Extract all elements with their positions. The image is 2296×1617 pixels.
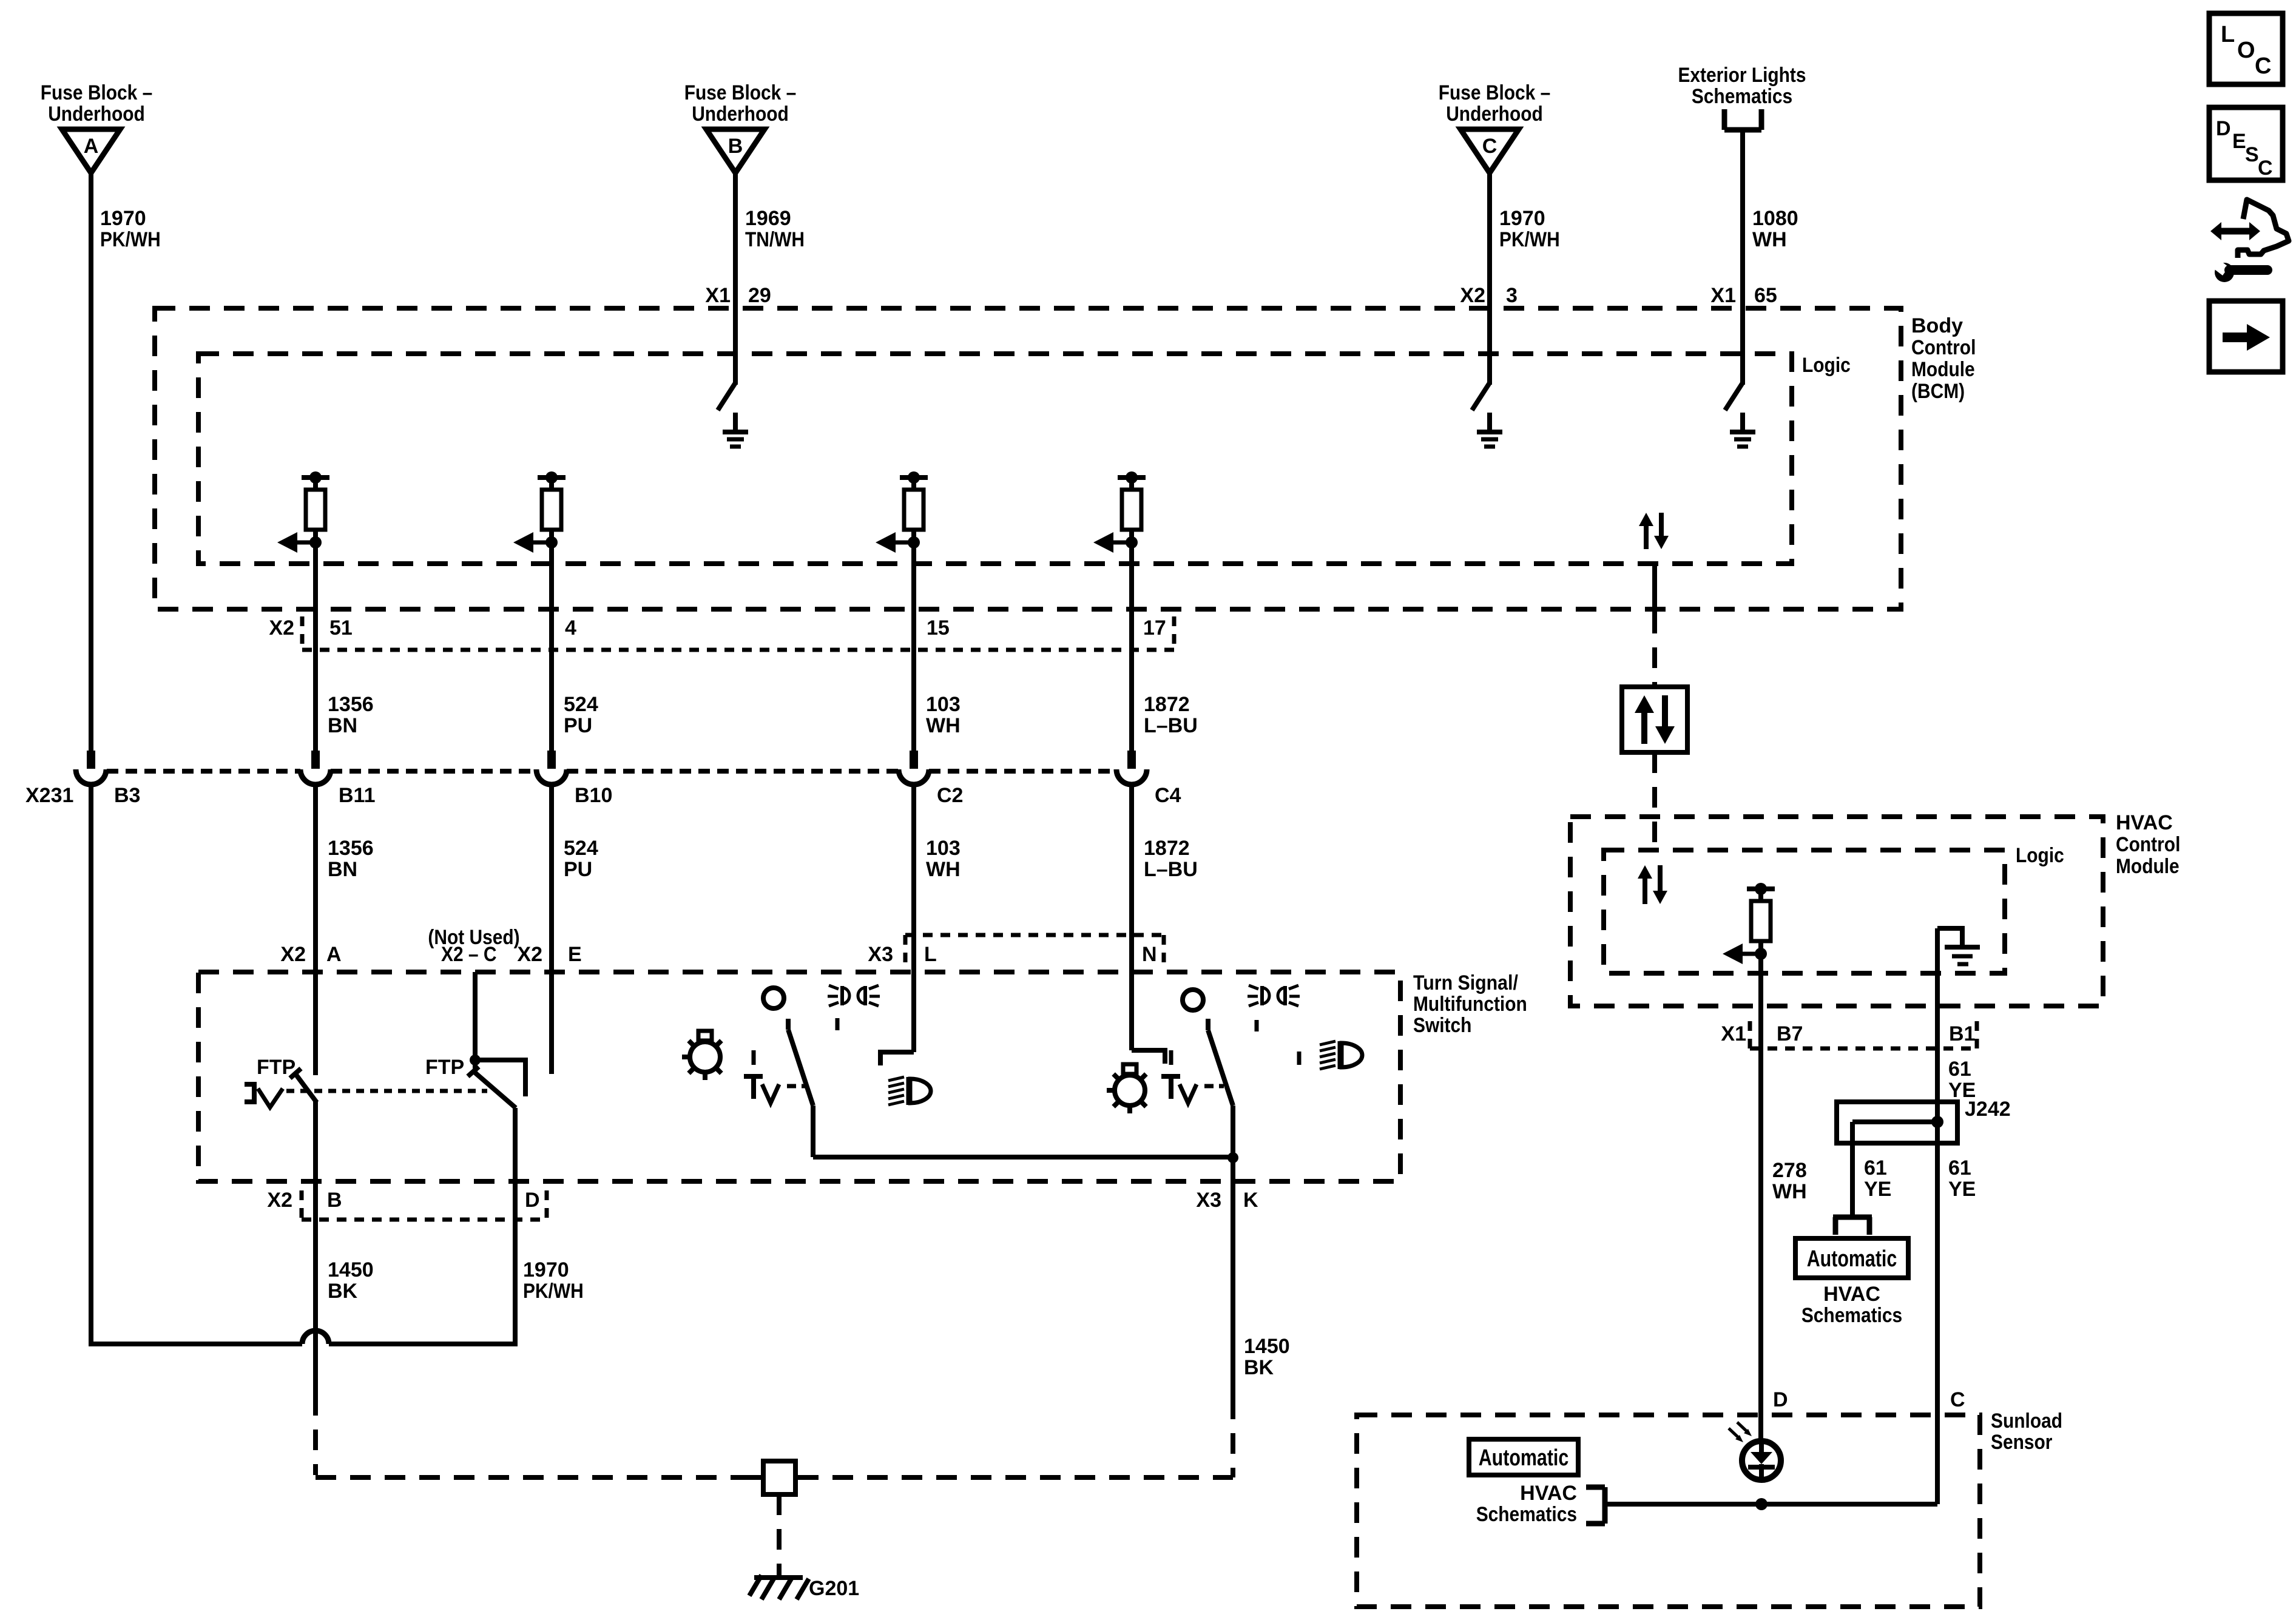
svg-text:1969: 1969 — [745, 207, 791, 230]
X231 label — [25, 784, 73, 807]
svg-text:Turn Signal/: Turn Signal/ — [1413, 971, 1518, 994]
fuse block C label — [1439, 81, 1551, 126]
label 1872 L-BU upper — [1144, 693, 1198, 737]
svg-text:PK/WH: PK/WH — [523, 1280, 584, 1303]
label 1450 BK left — [328, 1258, 374, 1303]
tick below flash icon 1 — [836, 1018, 840, 1030]
Turn Signal/Multifunction Switch dashed box — [198, 972, 1400, 1181]
svg-text:1970: 1970 — [1499, 207, 1545, 230]
FTP switch blade left — [290, 1068, 317, 1102]
svg-text:X2: X2 — [269, 616, 294, 640]
svg-text:Multifunction: Multifunction — [1413, 993, 1527, 1016]
fuse block triangle C — [1460, 129, 1519, 173]
BCM driver resistor for B11 — [277, 471, 329, 553]
fuse block triangle A — [62, 129, 120, 173]
svg-text:Module: Module — [1911, 358, 1975, 381]
switch output wire to K — [813, 1155, 1233, 1160]
svg-text:X1: X1 — [1710, 284, 1736, 307]
Body Control Module (BCM) outer dashed box — [155, 308, 1901, 609]
HVAC Logic label — [2016, 844, 2064, 867]
svg-text:X1: X1 — [705, 284, 731, 307]
wire 1080 WH from exterior lights — [1740, 130, 1745, 385]
svg-text:L–BU: L–BU — [1144, 714, 1198, 737]
svg-text:1872: 1872 — [1144, 837, 1190, 860]
label 103 WH lower — [926, 837, 961, 881]
svg-text:FTP: FTP — [425, 1056, 464, 1079]
svg-text:B11: B11 — [339, 784, 376, 807]
svg-text:Schematics: Schematics — [1476, 1503, 1577, 1526]
wire C circuit label 1970 PK/WH — [1499, 207, 1560, 251]
svg-text:E: E — [2232, 130, 2246, 153]
wire 1970 PK/WH to switch (A) — [89, 786, 93, 1346]
wire 1970 PK/WH from fuse A — [89, 173, 93, 753]
wire 1356 BN upper — [313, 542, 318, 753]
HVAC Schematics label 2 — [1476, 1482, 1577, 1526]
svg-text:B1: B1 — [1949, 1022, 1975, 1045]
svg-text:1970: 1970 — [100, 207, 146, 230]
HVAC Schematics label 1 — [1801, 1283, 1902, 1327]
svg-text:Schematics: Schematics — [1801, 1304, 1902, 1327]
svg-text:WH: WH — [926, 714, 961, 737]
FTP label right — [425, 1056, 464, 1079]
svg-text:Body: Body — [1911, 314, 1963, 337]
tick left of headlamp icon 2 — [1297, 1052, 1302, 1065]
detent symbol 1 — [744, 1050, 806, 1103]
wire 1450 BK from X3-K — [1231, 1158, 1235, 1399]
svg-text:B: B — [728, 135, 743, 158]
wire 1450 BK from X2-B — [313, 1101, 318, 1395]
Sunload Sensor dashed box — [1357, 1415, 1980, 1607]
pin label 4 — [565, 616, 576, 640]
svg-text:A: A — [84, 135, 99, 158]
svg-text:1356: 1356 — [328, 837, 374, 860]
HVAC internal ground for B1 — [1937, 928, 1980, 964]
BCM driver resistor for C2 — [876, 471, 928, 553]
svg-text:G201: G201 — [809, 1577, 859, 1600]
pin label X1 B7 — [1721, 1022, 1803, 1045]
svg-text:B7: B7 — [1777, 1022, 1803, 1045]
svg-text:C4: C4 — [1155, 784, 1181, 807]
svg-text:1872: 1872 — [1144, 693, 1190, 716]
label 1450 BK right — [1244, 1335, 1290, 1379]
svg-text:51: 51 — [329, 616, 353, 640]
pin label B3 — [114, 784, 140, 807]
wire 61 YE to HVAC schematics — [1850, 1122, 1855, 1215]
svg-text:61: 61 — [1948, 1058, 1971, 1081]
svg-text:1970: 1970 — [523, 1258, 569, 1281]
pin label D — [1773, 1388, 1788, 1411]
svg-text:HVAC: HVAC — [2116, 811, 2173, 834]
serial data box symbol — [1622, 687, 1687, 752]
switch pivot circle 1 — [763, 988, 784, 1008]
fixed contact from 1872 L-BU — [1132, 1050, 1165, 1064]
BCM internal switch to ground on 1080 wire — [1725, 383, 1755, 447]
HVAC X1 connector fine dotted line — [1750, 1021, 1977, 1048]
FTP linkage dotted line — [286, 1089, 487, 1093]
pin label C — [1950, 1388, 1965, 1411]
svg-text:Underhood: Underhood — [1446, 103, 1543, 126]
wire 61 YE (B1) — [1935, 928, 1940, 1504]
pin label X1 65 — [1710, 284, 1777, 307]
svg-text:L: L — [2221, 22, 2235, 47]
svg-text:103: 103 — [926, 693, 961, 716]
pin label 17 — [1143, 616, 1166, 640]
svg-text:X2: X2 — [1460, 284, 1485, 307]
wire 103 WH upper — [911, 542, 916, 753]
BCM name label — [1911, 314, 1976, 403]
pin label X2 51 — [269, 616, 352, 640]
svg-text:X1: X1 — [1721, 1022, 1746, 1045]
Automatic box 2 — [1469, 1439, 1578, 1475]
HVAC sensor resistor — [1723, 883, 1775, 964]
exterior lights source bracket — [1724, 109, 1761, 130]
svg-text:Switch: Switch — [1413, 1014, 1471, 1037]
svg-text:61: 61 — [1864, 1156, 1887, 1180]
pin label X2 E — [517, 943, 581, 966]
svg-text:C: C — [2255, 53, 2271, 79]
svg-text:278: 278 — [1772, 1159, 1807, 1182]
BCM Logic label — [1802, 354, 1851, 377]
svg-text:1450: 1450 — [1244, 1335, 1290, 1358]
svg-text:Logic: Logic — [1802, 354, 1851, 377]
svg-text:HVAC: HVAC — [1520, 1482, 1577, 1505]
J242 label — [1965, 1098, 2011, 1121]
svg-text:X3: X3 — [868, 943, 893, 966]
source bracket sunload — [1586, 1487, 1605, 1524]
Turn Signal switch name label — [1413, 971, 1527, 1037]
svg-text:Underhood: Underhood — [48, 103, 145, 126]
pin label X3 L — [868, 943, 936, 966]
svg-text:PU: PU — [564, 714, 592, 737]
svg-text:Module: Module — [2116, 855, 2180, 878]
fuse block A label — [41, 81, 153, 126]
not used note — [428, 926, 519, 949]
BCM internal switch to ground on 1969 wire — [718, 383, 748, 447]
FTP label left — [257, 1056, 295, 1079]
pin label B11 — [339, 784, 376, 807]
svg-text:BK: BK — [1244, 1356, 1274, 1379]
svg-text:524: 524 — [564, 693, 598, 716]
Sunload Sensor name label — [1991, 1409, 2062, 1454]
svg-text:WH: WH — [1772, 1180, 1807, 1203]
FTP detent symbol — [245, 1082, 283, 1107]
svg-text:HVAC: HVAC — [1823, 1283, 1880, 1306]
HVAC Control Module outer dashed box — [1570, 817, 2103, 1006]
svg-text:YE: YE — [1864, 1178, 1891, 1201]
pin label X3 K — [1196, 1189, 1258, 1212]
svg-text:L: L — [924, 943, 937, 966]
crossover hop on ground run — [91, 1331, 515, 1344]
connector cup B11 — [300, 751, 331, 785]
connector cup B3 — [76, 751, 106, 785]
svg-text:C: C — [1950, 1388, 1965, 1411]
svg-text:X2: X2 — [267, 1189, 292, 1212]
HVAC module name label — [2116, 811, 2180, 878]
svg-text:Underhood: Underhood — [692, 103, 789, 126]
HVAC serial data arrows — [1638, 865, 1667, 904]
connector cup C4 — [1116, 751, 1147, 785]
label 61 YE right — [1948, 1156, 1976, 1201]
gear icon 1 — [682, 1031, 721, 1080]
svg-text:(BCM): (BCM) — [1911, 380, 1965, 403]
serial data dashed wire to HVAC — [1652, 752, 1657, 848]
label 1872 L-BU lower — [1144, 837, 1198, 881]
svg-text:Logic: Logic — [2016, 844, 2064, 867]
wire 1872 L-BU lower — [1129, 786, 1134, 1050]
pin label C4 — [1155, 784, 1181, 807]
svg-text:WH: WH — [1752, 228, 1787, 251]
label 61 YE upper — [1948, 1058, 1976, 1102]
switch blade 1 — [788, 1019, 813, 1157]
label 1356 BN upper — [328, 693, 374, 737]
FTP switch blade right — [468, 1067, 516, 1108]
svg-text:C2: C2 — [937, 784, 963, 807]
svg-text:C: C — [1482, 135, 1497, 158]
svg-text:PU: PU — [564, 858, 592, 881]
svg-text:29: 29 — [748, 284, 771, 307]
pin label X2 A — [280, 943, 341, 966]
svg-text:61: 61 — [1948, 1156, 1971, 1180]
Automatic box 1 — [1795, 1238, 1908, 1278]
svg-text:X2 – C: X2 – C — [441, 943, 497, 966]
svg-text:Control: Control — [1911, 336, 1976, 359]
svg-text:1450: 1450 — [328, 1258, 374, 1281]
svg-text:C: C — [2258, 157, 2273, 180]
svg-text:Control: Control — [2116, 833, 2180, 856]
headlamp icon 1 — [888, 1077, 931, 1105]
svg-text:Sunload: Sunload — [1991, 1409, 2062, 1433]
svg-text:O: O — [2237, 38, 2255, 63]
svg-text:X231: X231 — [25, 784, 73, 807]
BCM driver resistor for C4 — [1093, 471, 1146, 553]
BCM serial data arrows — [1639, 513, 1669, 549]
svg-text:X3: X3 — [1196, 1189, 1221, 1212]
wire 103 WH lower — [911, 786, 916, 1052]
tick below flash icon 2 — [1255, 1020, 1259, 1031]
wire 278 WH — [1758, 954, 1763, 1439]
wire B circuit label 1969 TN/WH — [745, 207, 805, 251]
junction dot X2-C — [470, 1055, 481, 1065]
svg-text:J242: J242 — [1965, 1098, 2011, 1121]
X3 connector notch dotted line — [905, 935, 1164, 965]
wire 1969 TN/WH from fuse B — [733, 173, 738, 385]
headlamp icon 2 — [1320, 1041, 1362, 1069]
svg-text:Automatic: Automatic — [1807, 1246, 1897, 1272]
svg-text:B10: B10 — [575, 784, 612, 807]
splice square — [748, 1461, 811, 1494]
X231 dotted connector line — [107, 769, 1116, 774]
label 278 WH — [1772, 1159, 1807, 1203]
svg-text:YE: YE — [1948, 1178, 1976, 1201]
pin label N — [1142, 943, 1157, 966]
pin label B10 — [575, 784, 612, 807]
label 524 PU lower — [564, 837, 598, 881]
pin label X2 3 — [1460, 284, 1518, 307]
dashed line splice to K wire — [798, 1475, 1233, 1480]
ground label G201 — [809, 1577, 859, 1600]
pin label X2-C — [441, 943, 497, 966]
fuse block B label — [684, 81, 797, 126]
dashed drop to G201 — [777, 1494, 782, 1576]
svg-text:S: S — [2245, 143, 2259, 166]
label 1356 BN lower — [328, 837, 374, 881]
svg-text:1080: 1080 — [1752, 207, 1798, 230]
svg-text:TN/WH: TN/WH — [745, 228, 805, 251]
svg-text:B3: B3 — [114, 784, 140, 807]
wire label 1080 WH — [1752, 207, 1798, 251]
svg-text:Schematics: Schematics — [1692, 85, 1792, 108]
svg-text:3: 3 — [1506, 284, 1518, 307]
pin label X1 29 — [705, 284, 771, 307]
BCM internal switch to ground on wire C — [1472, 383, 1502, 447]
svg-text:X2: X2 — [280, 943, 306, 966]
junction dot at K wire — [1227, 1152, 1238, 1163]
wire 1356 BN lower — [313, 786, 318, 1075]
wire 524 PU upper — [549, 542, 554, 753]
BCM driver resistor for B10 — [513, 471, 566, 553]
svg-text:BN: BN — [328, 714, 357, 737]
sunload sensor output wire — [1605, 1502, 1937, 1507]
flash icon 2 — [1248, 985, 1300, 1006]
light arrows into photodiode — [1729, 1422, 1752, 1442]
detent symbol 2 — [1161, 1050, 1224, 1103]
destination bracket 61 YE — [1833, 1217, 1872, 1235]
svg-text:E: E — [568, 943, 582, 966]
photodiode — [1742, 1439, 1781, 1482]
wire A circuit label 1970 PK/WH — [100, 207, 161, 251]
Exterior Lights Schematics label — [1678, 64, 1806, 108]
svg-text:B: B — [327, 1189, 342, 1212]
label 524 PU upper — [564, 693, 598, 737]
svg-text:103: 103 — [926, 837, 961, 860]
wire 1450 BK right dashed — [1231, 1399, 1235, 1477]
wire 1970 PK/WH via X2-D — [513, 1108, 518, 1346]
svg-text:Sensor: Sensor — [1991, 1431, 2052, 1454]
svg-text:1356: 1356 — [328, 693, 374, 716]
svg-text:17: 17 — [1143, 616, 1166, 640]
photodiode junction dot — [1755, 1498, 1768, 1510]
LOC legend box — [2209, 13, 2283, 84]
svg-text:D: D — [1773, 1388, 1788, 1411]
svg-text:Fuse Block –: Fuse Block – — [41, 81, 153, 104]
HVAC Logic inner dashed box — [1604, 850, 2005, 973]
fixed contact from 103 WH — [880, 1052, 914, 1065]
switch pivot circle 2 — [1183, 990, 1203, 1010]
connector cup C2 — [899, 751, 929, 785]
svg-text:Automatic: Automatic — [1479, 1445, 1569, 1471]
svg-text:524: 524 — [564, 837, 598, 860]
wire 1970 PK/WH from fuse C — [1487, 173, 1492, 385]
svg-text:N: N — [1142, 943, 1157, 966]
svg-text:4: 4 — [565, 616, 576, 640]
svg-text:PK/WH: PK/WH — [1499, 228, 1560, 251]
wire 524 PU lower — [549, 786, 554, 1074]
label 1970 PK/WH lower — [523, 1258, 584, 1303]
pin label B1 — [1949, 1022, 1975, 1045]
not-used stub from X2-C — [475, 1060, 525, 1096]
switch blade 2 — [1208, 1019, 1233, 1158]
svg-text:Fuse Block –: Fuse Block – — [684, 81, 797, 104]
label 103 WH upper — [926, 693, 961, 737]
svg-text:BN: BN — [328, 858, 357, 881]
BCM Logic inner dashed box — [198, 354, 1792, 564]
DESC legend box — [2209, 107, 2283, 180]
svg-text:BK: BK — [328, 1280, 358, 1303]
pin label C2 — [937, 784, 963, 807]
forward arrow legend box — [2209, 301, 2283, 372]
J242 internal splice bar — [1852, 1119, 1937, 1124]
svg-text:Exterior Lights: Exterior Lights — [1678, 64, 1806, 87]
svg-text:D: D — [2216, 117, 2231, 140]
svg-text:15: 15 — [927, 616, 950, 640]
wire from X2-C pin — [473, 972, 478, 1074]
svg-text:K: K — [1243, 1189, 1258, 1212]
svg-text:65: 65 — [1754, 284, 1777, 307]
svg-text:PK/WH: PK/WH — [100, 228, 161, 251]
svg-text:Fuse Block –: Fuse Block – — [1439, 81, 1551, 104]
svg-text:WH: WH — [926, 858, 961, 881]
wire 1450 BK dashed to splice — [316, 1395, 761, 1477]
connector cup B10 — [536, 751, 567, 785]
pin label X2 B — [267, 1189, 342, 1212]
gear icon 2 — [1107, 1064, 1146, 1113]
svg-text:X2: X2 — [517, 943, 542, 966]
svg-text:L–BU: L–BU — [1144, 858, 1198, 881]
fuse block triangle B — [706, 129, 765, 173]
pin label D — [525, 1189, 540, 1212]
diagnostic path legend icon — [2210, 200, 2289, 282]
J242 junction dot — [1931, 1116, 1943, 1128]
svg-text:D: D — [525, 1189, 540, 1212]
chassis ground G201 symbol — [749, 1575, 809, 1599]
flash icon 1 — [828, 985, 880, 1006]
splice pack J242 box — [1837, 1102, 1957, 1143]
serial data wire below BCM — [1652, 564, 1657, 687]
BCM X2 connector fine dotted line — [302, 616, 1174, 650]
label 61 YE middle — [1864, 1156, 1891, 1201]
wire 1872 L-BU upper — [1129, 542, 1134, 753]
pin label 15 — [927, 616, 950, 640]
svg-text:A: A — [326, 943, 342, 966]
X2 bottom connector fine dotted line — [302, 1190, 547, 1220]
